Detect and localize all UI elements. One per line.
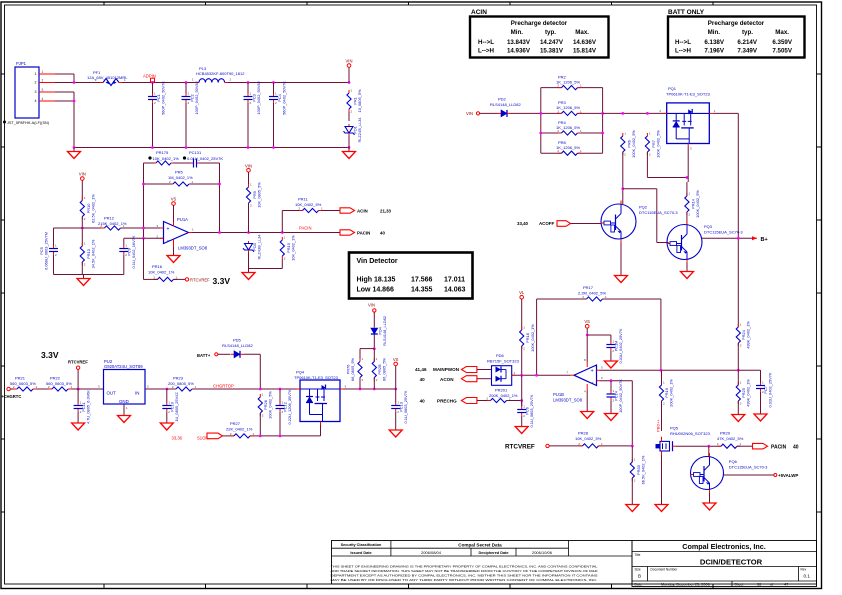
svg-text:typ.: typ. [545,29,556,36]
svg-text:3.3V: 3.3V [41,350,59,360]
wire ACIN branch vertical [281,211,283,233]
resistor PR17 [582,295,607,301]
wire loop right vertical [219,163,221,233]
capacitor PC6 [517,401,526,423]
svg-text:3: 3 [42,88,44,92]
junction [646,112,649,115]
transistor PQ3 [667,221,702,263]
svg-text:Rev: Rev [801,567,807,571]
svg-text:2.2M_0402_5%: 2.2M_0402_5% [578,290,606,295]
svg-text:RLS4148_LLD82: RLS4148_LLD82 [490,102,521,107]
resistor bank rails [541,88,603,154]
connector PJP1 [3,61,55,125]
svg-text:33,40: 33,40 [517,221,529,226]
wire main DC rail right [228,82,349,84]
wire VL stub [521,299,523,330]
input port labels PRECHG [420,399,457,404]
ground [681,268,694,279]
capacitor PC1 [148,83,157,148]
junction [660,369,663,372]
wire PRECHG to VL column [507,400,522,402]
junction [686,176,689,179]
capacitor PC1M [606,335,615,357]
input port MAINPWON [461,367,477,373]
input port ACOFF [517,221,554,226]
wire VS stub mid [586,328,588,362]
svg-text:34.5K_0402_1%: 34.5K_0402_1% [90,239,95,268]
title block [331,541,817,587]
svg-text:0.01U_0402_25V7K: 0.01U_0402_25V7K [618,328,623,363]
resistor PR21 [13,385,38,391]
resistor PR6 [621,132,627,157]
wire PQ6 base wire [724,474,774,476]
svg-text:1K_1206_5%: 1K_1206_5% [556,79,580,84]
transistor PQ6 [691,453,724,493]
wire PU1B out row [512,374,571,376]
resistor PR18 [520,326,526,351]
junction [539,112,542,115]
net port VIN right [466,111,480,116]
svg-text:2006/08/04: 2006/08/04 [421,550,442,555]
svg-text:DTC115EUA_SC70-3: DTC115EUA_SC70-3 [704,229,743,234]
svg-text:PQ5: PQ5 [670,426,679,431]
svg-text:TP0610K-T1-E3_SOT23: TP0610K-T1-E3_SOT23 [666,91,711,96]
svg-text:G920AT24U_SOT89: G920AT24U_SOT89 [104,364,143,369]
power VS [584,319,590,328]
wire noninv row right [121,227,164,229]
net port BATT+ [197,353,218,358]
label PR19 [664,379,674,407]
svg-text:0.22U_1206_35V7K: 0.22U_1206_35V7K [287,389,292,424]
resistor PR201 [486,397,511,403]
svg-text:PR23: PR23 [173,376,184,381]
svg-text:DTC115EUA_SC70-3: DTC115EUA_SC70-3 [729,464,768,469]
svg-text:33,36: 33,36 [172,436,183,441]
svg-text:H-->L: H-->L [675,39,691,46]
junction [185,146,188,149]
svg-text:PR21: PR21 [15,376,26,381]
capacitor PC5 [49,228,58,275]
svg-text:499K_0402_1%: 499K_0402_1% [745,321,750,349]
wire PR4 row [541,132,603,134]
wire VIN stub [348,67,350,82]
svg-text:CHGRTOP: CHGRTOP [213,383,234,388]
svg-text:100K_0402_5%: 100K_0402_5% [656,130,661,158]
wire PQ3 emitter [686,263,688,268]
junction [279,435,282,438]
ground [160,419,173,430]
junction [359,388,362,391]
svg-text:RB715F_SOT323: RB715F_SOT323 [487,358,520,363]
junction [73,100,76,103]
svg-text:1K_1206_5%: 1K_1206_5% [556,145,580,150]
wire ACOFF wire [571,223,602,225]
svg-text:PQ4: PQ4 [296,370,305,375]
svg-text:14.355: 14.355 [411,287,433,294]
svg-text:7.349V: 7.349V [737,48,757,55]
svg-text:PD2: PD2 [498,97,507,102]
svg-text:Precharge detector: Precharge detector [511,20,568,27]
junction [142,237,145,240]
svg-text:MAY BE USED BY OR DISCLOSED TO: MAY BE USED BY OR DISCLOSED TO ANY THIRD… [331,578,598,582]
wire PJP1 pin3 to pin4 [55,92,74,101]
wire PR26 down [259,413,261,436]
capacitor PC12 [276,389,285,436]
junction [394,388,397,391]
svg-text:Deciphered Date: Deciphered Date [479,551,509,555]
wire PR7 down [647,152,687,178]
svg-text:100K_0402_5%: 100K_0402_5% [267,391,272,419]
svg-text:PACIN: PACIN [357,231,370,236]
wire PU1A output row [192,232,340,234]
zener diode PD1 [344,124,355,136]
wire PD3 down [248,253,250,269]
svg-text:PACIN: PACIN [771,444,787,450]
resistor PR29 [717,442,742,448]
wire PJP1 pin2 rail [55,82,100,84]
svg-text:PQ6: PQ6 [729,459,738,464]
junction [81,227,84,230]
svg-text:PJP1: PJP1 [16,61,27,66]
svg-text:PBD++: PBD++ [656,418,661,432]
junction [247,146,250,149]
svg-text:RTCVREF: RTCVREF [505,444,535,451]
svg-text:PR17: PR17 [583,285,594,290]
svg-text:PR5: PR5 [175,170,184,175]
diode PD2 [498,110,511,117]
svg-text:Title: Title [635,553,641,557]
svg-text:17.011: 17.011 [444,277,465,284]
svg-text:OUT: OUT [107,391,117,396]
svg-text:200K_0402_1%: 200K_0402_1% [489,393,518,398]
output port S1ON# [207,433,223,439]
junction [601,112,604,115]
svg-text:6.138V: 6.138V [704,39,724,46]
svg-text:PD6: PD6 [496,353,505,358]
resistor PR11 [298,207,323,213]
wire divider mid [81,217,83,247]
label PR2B [377,357,387,380]
junction [259,435,262,438]
label PC10 [170,392,180,422]
svg-text:3: 3 [35,90,37,94]
resistor PR1 [347,89,353,114]
svg-text:RTCVREF: RTCVREF [68,360,88,365]
junction [373,388,376,391]
wire RTCVREF down [77,369,79,389]
table Vin Detector [349,253,473,299]
junction [279,388,282,391]
svg-text:66.5K_0402_1%: 66.5K_0402_1% [640,455,645,484]
svg-text:40: 40 [380,231,385,236]
wire VS stub [173,205,175,222]
wire VIN stub3 [248,172,250,187]
wire ACIN row [282,210,340,212]
wire noninv row PU1B [600,369,761,371]
svg-text:Document Number: Document Number [651,568,679,572]
wire CHGRTC wire [10,388,103,390]
power VS [171,197,177,206]
ground [68,148,81,159]
wire B+ vertical [737,113,739,327]
svg-text:560P_0402_50V7K: 560P_0402_50V7K [161,81,166,115]
wire PR23 left [167,388,176,390]
label PC7 [763,372,773,407]
resistor PR8 [557,149,582,155]
net label ACIN [357,209,392,214]
junction [737,237,740,240]
resistor PR5 [169,180,194,186]
power VIN top [346,59,353,68]
svg-text:PR22: PR22 [50,376,61,381]
svg-text:VIN: VIN [245,163,252,168]
net label PACIN 40 [771,444,799,450]
junction [73,146,76,149]
svg-text:Min.: Min. [511,29,524,36]
ground [754,410,767,421]
diode PD4 [371,328,378,334]
junction [601,132,604,135]
label PR24 [741,321,751,349]
svg-text:1M_0402_1%: 1M_0402_1% [168,175,193,180]
svg-text:66_0805_5%: 66_0805_5% [382,357,387,380]
wire PR17 row [537,299,661,370]
wire PQ5 source gnd [661,455,663,500]
svg-text:Precharge detector: Precharge detector [708,20,765,27]
label PC131 [183,150,223,161]
wire VL column down [521,375,523,406]
wire inv row [124,237,164,239]
net port RTCVREF [185,277,210,282]
wire PC7 feed [760,370,762,385]
svg-text:10K_0402_5%: 10K_0402_5% [295,202,322,207]
label PR76 [346,357,356,380]
svg-text:2: 2 [42,79,44,83]
junction [218,231,221,234]
wire PR9 to row [248,203,250,233]
svg-text:Size: Size [635,567,641,571]
svg-text:Compal Secret Data: Compal Secret Data [458,542,502,547]
junction [272,81,275,84]
svg-text:560P_0402_50V7K: 560P_0402_50V7K [282,81,287,115]
ground [655,501,668,512]
label PC12 [283,389,293,424]
svg-text:100P_0402_50V8J: 100P_0402_50V8J [256,81,261,114]
svg-text:Compal Electronics, Inc.: Compal Electronics, Inc. [682,542,765,551]
wire PR19 bottom [661,401,663,431]
svg-text:PQ2: PQ2 [639,205,648,210]
svg-text:LM393DT_SO8: LM393DT_SO8 [553,398,583,403]
svg-text:L-->H: L-->H [478,48,495,55]
svg-text:MAINPWON: MAINPWON [433,367,460,372]
svg-text:VS: VS [584,319,590,324]
wire noninv row left [54,227,105,229]
PQ1 pin stubs [659,109,715,151]
svg-text:JST_5P8FHH-A(LF)(SN): JST_5P8FHH-A(LF)(SN) [7,121,50,125]
svg-text:47: 47 [784,582,788,586]
svg-text:RLS4148_LLD82: RLS4148_LLD82 [222,343,253,348]
ground [515,423,528,434]
junction [151,81,154,84]
output port PACIN40 [753,443,768,449]
svg-text:AND TRADE SECRET INFORMATION.: AND TRADE SECRET INFORMATION. THIS SHEET… [331,569,598,573]
wire PQ6 emitter [709,493,711,499]
svg-text:PR16: PR16 [152,264,163,269]
svg-text:2: 2 [35,81,37,85]
junction [539,132,542,135]
junction [272,146,275,149]
capacitor PC13 [391,389,400,426]
wire VL loop vertical [536,299,538,375]
svg-text:TP0610K-T1-E3_SOT23: TP0610K-T1-E3_SOT23 [294,375,339,380]
junction [185,81,188,84]
resistor PR27 [230,432,255,438]
resistor PR10 [80,196,86,221]
ground [118,412,131,423]
ground [389,426,402,437]
svg-text:40: 40 [420,399,426,404]
svg-text:PQ1: PQ1 [668,86,677,91]
power VIN [79,172,86,181]
wire PR6 down [622,152,624,204]
MOSFET PQ5 [656,437,677,456]
resistor PR23 [172,385,197,391]
wire PQ4 gate [259,425,321,436]
svg-text:HCB4532KF-800T90_1812: HCB4532KF-800T90_1812 [196,71,245,76]
svg-text:40: 40 [420,377,426,382]
input port labels ACON [420,377,455,382]
label PQ4 [294,370,339,380]
net port ADPIN [143,74,156,82]
label PC5 [39,232,49,270]
svg-text:4: 4 [35,99,37,103]
diode PD5 [231,351,244,358]
output port PACIN [340,230,355,235]
svg-text:typ.: typ. [742,29,753,36]
wire loop top [144,162,220,164]
svg-text:0.01U_0402_25V7K: 0.01U_0402_25V7K [187,156,223,161]
op-amp PU1A [156,217,207,251]
capacitor PC11 [74,389,83,419]
net label PACIN [357,231,385,236]
svg-text:PR27: PR27 [230,421,241,426]
wire PR19 top [661,370,663,385]
wire PR2 row [541,87,603,89]
label PQ3 [704,224,743,234]
wire PR18 down [521,346,523,375]
junction [621,112,624,115]
label PQ2 [639,205,678,215]
junction [737,369,740,372]
wire PR16 row [144,278,186,280]
svg-text:1U_0805_25V4Z: 1U_0805_25V4Z [174,392,179,422]
wire PQ6 collector [708,446,710,456]
ground [604,357,617,368]
wire PR2B wires [373,349,375,389]
capacitor PC14 [607,381,616,410]
net port +CHGRTC [1,387,21,399]
wire VS mid stub [395,366,397,389]
wire PD4 down [373,335,375,349]
ground [605,410,618,421]
net labels S1ON# [172,436,212,441]
wire PR76 down [359,378,361,390]
svg-text:B+: B+ [761,237,768,243]
svg-text:+: + [167,227,170,233]
svg-text:+: + [591,369,594,375]
svg-text:100K_0402_5%: 100K_0402_5% [631,130,636,158]
wire main DC rail [123,82,200,84]
junction [707,445,710,448]
wire VIN mid stub [373,312,375,327]
wire ACON wire [477,378,492,380]
label PQ1 [666,86,711,96]
svg-text:10K_0402_1%: 10K_0402_1% [290,235,295,261]
svg-text:0.068U_0603_25V7M: 0.068U_0603_25V7M [44,232,49,270]
ground [167,252,180,263]
svg-text:215K_0402_1%: 215K_0402_1% [98,221,127,226]
ground [242,269,255,280]
junction [151,146,154,149]
wire PR8 row [541,152,603,154]
svg-text:22K_0402_1%: 22K_0402_1% [226,426,253,431]
svg-text:62.5K_0402_1%: 62.5K_0402_1% [90,194,95,223]
wire RTCVREF wire [549,445,632,447]
svg-text:21,33: 21,33 [380,209,392,214]
svg-text:ACOFF: ACOFF [539,221,554,226]
ground [615,272,628,283]
svg-text:RHU002N06_SOT323: RHU002N06_SOT323 [670,431,711,436]
svg-text:15.814V: 15.814V [573,48,597,55]
svg-text:L-->H: L-->H [675,48,692,55]
capacitor PC3 [244,83,253,148]
output port ACIN [340,208,355,213]
svg-text:14.063: 14.063 [444,287,466,294]
svg-text:Max.: Max. [575,29,589,36]
svg-text:RLS4148_LLD82: RLS4148_LLD82 [382,316,387,346]
junction [373,347,376,350]
wire PQ3 base feed [623,189,669,243]
svg-text:10K_0402_1%: 10K_0402_1% [148,269,175,274]
junction [535,374,538,377]
wire PR5 row [144,183,220,185]
label PR175 [148,150,179,161]
wire VS to PC1M [587,334,611,336]
svg-text:0.01U_0402_25V7K: 0.01U_0402_25V7K [768,372,773,407]
wire divider bottom [81,262,83,275]
svg-text:VIN: VIN [368,302,375,307]
resistor PR28 [578,442,603,448]
label PC6 [524,394,534,427]
table BATT ONLY precharge detector [668,9,805,58]
wire PU1B pin4 gnd [586,390,588,408]
svg-text:PU1A: PU1A [177,217,188,222]
svg-text:BATT+: BATT+ [197,353,211,358]
input port PRECHG [461,398,477,404]
svg-text:2006/10/06: 2006/10/06 [532,550,553,555]
wire PR16 vertical [143,238,145,279]
svg-text:PR28: PR28 [578,431,589,436]
input port ACON [461,376,477,382]
wire PU2 gnd pin [123,404,125,412]
svg-text:Sheet: Sheet [735,582,744,586]
svg-text:RLZ43B_LL34: RLZ43B_LL34 [257,234,262,260]
svg-text:200_0805_5%: 200_0805_5% [168,381,194,386]
junction [73,81,76,84]
capacitor PC4 [269,83,278,148]
label PQ6 [729,459,768,469]
resistor PR19 [659,381,665,406]
